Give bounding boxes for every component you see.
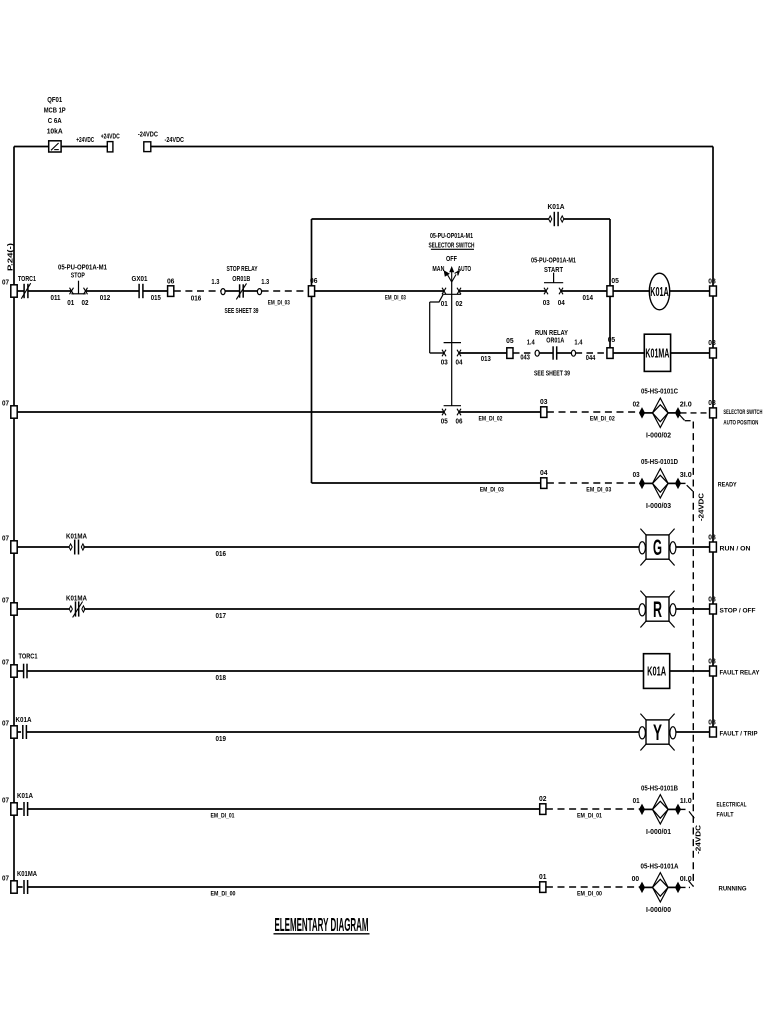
svg-text:GX01: GX01: [132, 276, 148, 283]
svg-text:05: 05: [611, 278, 619, 285]
relay coil K01A box: [644, 654, 670, 689]
PLC output marker 0I.0: [676, 883, 681, 892]
svg-text:ELEMENTARY DIAGRAM: ELEMENTARY DIAGRAM: [275, 914, 369, 935]
wire rung1 b: [28, 290, 71, 292]
contactor coil K01A circle: [649, 273, 669, 310]
svg-text:OFF: OFF: [446, 256, 458, 263]
wire fault relay rung b: [27, 670, 644, 672]
contact OR01B NC stop relay: [239, 284, 241, 297]
svg-text:05: 05: [506, 338, 514, 345]
svg-text:07: 07: [2, 280, 9, 287]
wire running e: [668, 886, 675, 888]
wire: feeder left bus to breaker: [14, 146, 49, 148]
wire R rung a: [17, 608, 70, 610]
svg-text:03: 03: [633, 472, 640, 479]
svg-text:FAULT RELAY: FAULT RELAY: [720, 670, 761, 677]
PLC I/O symbol 05-HS-0101B: [653, 795, 669, 824]
svg-text:01: 01: [67, 300, 74, 307]
wire dashed rung4 b: [547, 482, 640, 484]
svg-text:018: 018: [216, 675, 227, 682]
svg-text:07: 07: [2, 598, 9, 605]
wire G rung a: [17, 546, 70, 548]
svg-text:04: 04: [558, 300, 565, 307]
terminal 05 rung1: [607, 286, 613, 297]
svg-text:08: 08: [708, 596, 716, 603]
terminal 08 fault relay rung: [710, 666, 717, 676]
svg-text:SEE SHEET 39: SEE SHEET 39: [534, 370, 570, 377]
wire rung4 d: [668, 482, 675, 484]
svg-text:EM_DI_01: EM_DI_01: [211, 813, 235, 820]
svg-text:05-PU-OP01A-M1: 05-PU-OP01A-M1: [430, 233, 473, 240]
relay coil K01MA: [644, 334, 670, 371]
svg-text:EM_DI_02: EM_DI_02: [590, 415, 615, 422]
svg-text:STOP RELAY: STOP RELAY: [227, 266, 258, 273]
svg-text:016: 016: [191, 295, 202, 302]
wire running d: [645, 886, 653, 888]
svg-text:K01A: K01A: [16, 717, 32, 724]
wire rung1 h: [315, 290, 444, 292]
wire: left bus +24VDC vertical: [13, 147, 15, 888]
selector position arrows: [451, 272, 453, 283]
svg-text:C 6A: C 6A: [48, 118, 62, 125]
svg-text:06: 06: [167, 278, 175, 285]
svg-text:02: 02: [82, 300, 89, 307]
terminal 07 fault relay rung: [11, 665, 17, 677]
svg-text:019: 019: [216, 736, 227, 743]
svg-text:01: 01: [441, 301, 448, 308]
selector contact 05-06: [442, 409, 446, 416]
svg-text:05: 05: [441, 419, 448, 426]
PLC output marker 3I.0: [676, 479, 681, 488]
wire: seal branch left riser: [311, 219, 313, 286]
wire rung1 h2: [460, 290, 546, 292]
svg-text:I-000/00: I-000/00: [646, 907, 671, 914]
terminal 05 rung2 left: [507, 348, 513, 359]
svg-text:03: 03: [543, 300, 550, 307]
pushbutton STOP NC: [70, 288, 74, 295]
svg-text:FAULT: FAULT: [717, 812, 734, 819]
svg-text:FAULT / TRIP: FAULT / TRIP: [720, 731, 759, 738]
svg-text:015: 015: [151, 295, 161, 302]
svg-text:06: 06: [456, 419, 463, 426]
terminal 07 R rung: [11, 603, 17, 615]
svg-text:TORC1: TORC1: [19, 654, 38, 661]
wire: tick to -24VDC return elec fault: [689, 811, 694, 818]
svg-text:+24VDC: +24VDC: [76, 137, 94, 144]
svg-text:08: 08: [708, 400, 716, 407]
wire rung2 e: [613, 352, 644, 354]
svg-text:EM_DI_03: EM_DI_03: [268, 300, 290, 307]
svg-text:043: 043: [520, 355, 530, 362]
wire dashed elec fault f: [681, 808, 689, 810]
contact K01MA NO running: [23, 880, 25, 894]
svg-text:10kA: 10kA: [47, 129, 63, 136]
wire: seal branch top: [312, 218, 550, 220]
wire rung4 a: [312, 482, 541, 484]
svg-text:017: 017: [216, 613, 227, 620]
PLC input marker 02: [640, 408, 645, 417]
wire dashed rung3 c: [547, 411, 640, 413]
svg-text:READY: READY: [718, 481, 738, 488]
contact K01A seal-in NO: [549, 216, 552, 222]
svg-text:03: 03: [441, 360, 448, 367]
svg-text:08: 08: [708, 340, 716, 347]
svg-text:00: 00: [632, 876, 640, 883]
svg-text:SELECTOR SWITCH: SELECTOR SWITCH: [429, 243, 475, 250]
svg-text:1I.0: 1I.0: [680, 798, 692, 805]
pilot light Y: [640, 714, 646, 720]
svg-text:AUTO POSITION: AUTO POSITION: [723, 419, 758, 426]
wire rung3 e: [668, 412, 675, 414]
svg-text:EM_DI_03: EM_DI_03: [480, 486, 504, 493]
svg-text:I-000/01: I-000/01: [646, 829, 671, 836]
terminal 08 rung1: [710, 286, 717, 296]
svg-text:016: 016: [216, 551, 227, 558]
svg-text:K01A: K01A: [548, 204, 565, 211]
circuit breaker QF01: [49, 141, 61, 152]
wire: breaker to +24VDC terminal: [61, 146, 107, 148]
svg-text:05-HS-0101D: 05-HS-0101D: [641, 459, 678, 466]
wire R rung b: [84, 608, 639, 610]
wire rung1 i: [613, 290, 649, 292]
svg-text:K01A: K01A: [17, 793, 33, 800]
contact TORC1 NC: [23, 284, 25, 298]
svg-text:EM_DI_00: EM_DI_00: [577, 890, 602, 897]
selector contact 03-04: [442, 350, 446, 357]
svg-text:01: 01: [633, 798, 640, 805]
wire elec fault b: [28, 808, 540, 810]
wire rung1 a: [17, 290, 24, 292]
PLC output marker 2I.0: [676, 408, 681, 417]
wire dashed rung1 e: [174, 290, 221, 292]
terminal 08 rung2: [710, 348, 717, 358]
wire rung3 a: [17, 411, 443, 413]
PLC input marker 00: [640, 883, 645, 892]
wire R rung c: [676, 608, 710, 610]
wire running b: [28, 886, 540, 888]
terminal 07 Y rung: [11, 726, 17, 738]
pushbutton START NO: [544, 288, 548, 295]
wire rung3 b: [460, 411, 541, 413]
svg-text:08: 08: [708, 534, 716, 541]
svg-text:R: R: [653, 597, 662, 622]
pilot light G: [640, 529, 646, 535]
wire rung4 c: [645, 482, 653, 484]
svg-text:G: G: [653, 535, 662, 560]
selector contact 01-02: [442, 288, 446, 295]
wire dashed rung2 b: [513, 352, 535, 354]
contact TORC1 NO fault rung: [23, 664, 25, 679]
svg-text:EM_DI_01: EM_DI_01: [577, 812, 602, 819]
wire fault relay rung c: [670, 670, 710, 672]
svg-text:1.3: 1.3: [261, 279, 269, 286]
terminal 08 R rung: [710, 604, 717, 614]
wire: right bus -24VDC vertical: [712, 147, 714, 733]
svg-text:QF01: QF01: [47, 97, 62, 104]
terminal 06 seal node: [308, 286, 314, 297]
svg-text:K01A: K01A: [650, 285, 669, 299]
svg-text:07: 07: [2, 660, 9, 667]
svg-text:08: 08: [708, 658, 716, 665]
svg-text:05-HS-0101C: 05-HS-0101C: [641, 389, 678, 396]
wire: tick to -24VDC return ready: [687, 485, 693, 491]
pilot light R: [640, 591, 646, 597]
svg-text:I-000/02: I-000/02: [646, 433, 671, 440]
sheet connector 1.4 right: [571, 350, 575, 356]
wire: riser node 06 to READY rung: [311, 296, 313, 483]
terminal 07 elec fault rung: [11, 803, 17, 815]
wire dashed running c: [546, 886, 640, 888]
svg-text:07: 07: [2, 401, 9, 408]
wire rung2 a: [460, 352, 507, 354]
svg-text:04: 04: [540, 470, 548, 477]
svg-text:+24VDC: +24VDC: [101, 133, 120, 140]
terminal 07 rung3: [11, 406, 17, 418]
contact K01A NO elec fault: [23, 802, 25, 816]
svg-text:011: 011: [51, 295, 61, 302]
wire Y rung b: [26, 731, 638, 733]
wire dashed elec fault c: [546, 808, 640, 810]
svg-text:SEE SHEET 39: SEE SHEET 39: [225, 308, 259, 315]
svg-text:05: 05: [608, 337, 616, 344]
svg-text:-24VDC: -24VDC: [699, 493, 706, 521]
terminal -24VDC: [144, 142, 151, 152]
svg-text:-24VDC: -24VDC: [696, 825, 703, 854]
wire dashed rung3 f: [681, 412, 710, 414]
svg-text:K01MA: K01MA: [17, 871, 37, 878]
svg-text:RUNNING: RUNNING: [719, 885, 747, 892]
wire rung1 c: [86, 290, 139, 292]
wire G rung b: [83, 546, 639, 548]
terminal 03 rung3: [541, 407, 547, 418]
wire dashed: -24VDC return vertical: [692, 422, 694, 887]
contact GX01 NO: [138, 284, 140, 298]
svg-text:012: 012: [100, 295, 111, 302]
svg-text:EM_DI_02: EM_DI_02: [479, 415, 503, 422]
svg-text:I-000/03: I-000/03: [646, 503, 671, 510]
contact K01A NO Y rung: [22, 725, 24, 739]
terminal 02 elec fault: [540, 804, 546, 815]
contact K01MA NC R rung: [69, 606, 72, 612]
wire elec fault a: [17, 808, 22, 810]
wire dashed running f: [681, 886, 691, 888]
svg-text:MCB 1P: MCB 1P: [44, 108, 66, 115]
svg-text:K01MA: K01MA: [66, 534, 87, 541]
wire Y rung c: [676, 731, 710, 733]
wire dashed rung1 g: [262, 290, 309, 292]
svg-text:05-HS-0101A: 05-HS-0101A: [641, 864, 679, 871]
wire: branch to -24VDC return top: [679, 415, 684, 421]
terminal 07 running rung: [11, 881, 17, 893]
svg-text:OR01B: OR01B: [232, 276, 250, 283]
PLC output marker 1I.0: [676, 805, 681, 814]
svg-text:MAN: MAN: [432, 266, 444, 273]
wire rung3 d: [645, 412, 653, 414]
terminal 06 rung1: [168, 286, 174, 297]
svg-text:05-HS-0101B: 05-HS-0101B: [641, 786, 678, 793]
wire rung2 c: [539, 352, 553, 354]
sheet connector 1.4 left: [535, 350, 539, 356]
svg-text:EM_DI_03: EM_DI_03: [385, 295, 406, 302]
svg-text:08: 08: [708, 278, 716, 285]
svg-text:04: 04: [456, 360, 463, 367]
svg-text:-24VDC: -24VDC: [138, 132, 158, 139]
svg-text:05-PU-OP01A-M1: 05-PU-OP01A-M1: [531, 258, 576, 265]
svg-text:ELECTRICAL: ELECTRICAL: [717, 801, 747, 808]
svg-text:02: 02: [633, 402, 640, 409]
contact OR01A NO run relay: [552, 346, 554, 359]
terminal 08 G rung: [710, 542, 717, 552]
svg-text:3I.0: 3I.0: [680, 472, 692, 479]
wire: seal branch right riser: [609, 219, 611, 353]
svg-text:03: 03: [540, 399, 548, 406]
wire dashed rung2 d: [576, 352, 607, 354]
contact K01MA NO G rung: [69, 544, 72, 550]
terminal +24VDC: [107, 142, 113, 152]
terminal 04 rung4: [541, 478, 547, 489]
svg-text:OR01A: OR01A: [546, 338, 564, 345]
PLC I/O symbol 05-HS-0101A: [653, 873, 669, 902]
svg-text:Y: Y: [653, 720, 662, 745]
svg-text:1.4: 1.4: [527, 339, 535, 346]
svg-text:05-PU-OP01A-M1: 05-PU-OP01A-M1: [58, 265, 107, 272]
svg-text:EM_DI_03: EM_DI_03: [586, 486, 611, 493]
selector label underline: [431, 248, 474, 250]
wire: -24VDC top rail: [151, 146, 713, 148]
svg-text:044: 044: [586, 355, 596, 362]
svg-text:02: 02: [456, 301, 463, 308]
wire G rung c: [676, 546, 710, 548]
PLC I/O symbol 05-HS-0101D: [653, 469, 669, 498]
wire: branch to AUTO contact: [430, 294, 444, 302]
wire rung1 j: [670, 290, 710, 292]
svg-text:1.4: 1.4: [574, 339, 582, 346]
svg-text:AUTO: AUTO: [458, 266, 472, 273]
title underline: [274, 933, 370, 935]
wire rung2 f: [671, 352, 710, 354]
svg-text:K01A: K01A: [647, 664, 666, 678]
svg-text:1.3: 1.3: [211, 279, 219, 286]
wire rung1 d: [143, 290, 168, 292]
terminal 01 running: [540, 882, 546, 893]
wire fault relay rung a: [17, 670, 24, 672]
svg-text:K01MA: K01MA: [66, 596, 87, 603]
svg-text:01: 01: [539, 874, 547, 881]
wire elec fault e: [668, 808, 675, 810]
svg-text:STOP / OFF: STOP / OFF: [720, 607, 756, 614]
terminal 05 rung2 right: [607, 348, 613, 359]
wire rung1 h3: [561, 290, 607, 292]
svg-text:RUN / ON: RUN / ON: [720, 546, 751, 553]
wire rung1 f: [225, 290, 240, 292]
svg-text:-24VDC: -24VDC: [165, 137, 185, 144]
wire dashed rung4 e: [681, 482, 689, 484]
PLC input marker 03: [640, 479, 645, 488]
svg-text:RUN RELAY: RUN RELAY: [535, 330, 568, 337]
svg-text:07: 07: [2, 721, 9, 728]
svg-text:07: 07: [2, 536, 9, 543]
svg-text:07: 07: [2, 876, 9, 883]
wire running a: [17, 886, 22, 888]
terminal 08 Y rung: [710, 727, 717, 737]
svg-text:013: 013: [481, 356, 491, 363]
PLC I/O symbol 05-HS-0101C: [653, 398, 669, 427]
svg-text:08: 08: [708, 719, 716, 726]
svg-text:STOP: STOP: [71, 272, 85, 279]
wire: tick from -24VDC return running: [689, 881, 694, 887]
svg-text:02: 02: [539, 796, 547, 803]
svg-text:2I.0: 2I.0: [680, 402, 692, 409]
PLC input marker 01: [640, 805, 645, 814]
svg-text:07: 07: [2, 798, 9, 805]
selector shaft: [451, 282, 453, 406]
svg-text:SELECTOR SWITCH: SELECTOR SWITCH: [723, 409, 762, 416]
svg-text:TORC1: TORC1: [18, 276, 36, 283]
sheet connector 1.3 left: [221, 289, 225, 295]
terminal 07 G rung: [11, 541, 17, 553]
wire Y rung a: [17, 731, 21, 733]
svg-text:K01MA: K01MA: [645, 346, 669, 361]
sheet connector 1.3 right: [257, 289, 261, 295]
terminal 08 rung3: [710, 408, 717, 418]
svg-text:EM_DI_00: EM_DI_00: [211, 891, 236, 898]
svg-text:P.24(-): P.24(-): [8, 243, 15, 271]
svg-text:014: 014: [583, 295, 594, 302]
wire elec fault d: [645, 808, 653, 810]
svg-text:START: START: [544, 267, 564, 274]
terminal 07 rung1: [11, 285, 17, 297]
